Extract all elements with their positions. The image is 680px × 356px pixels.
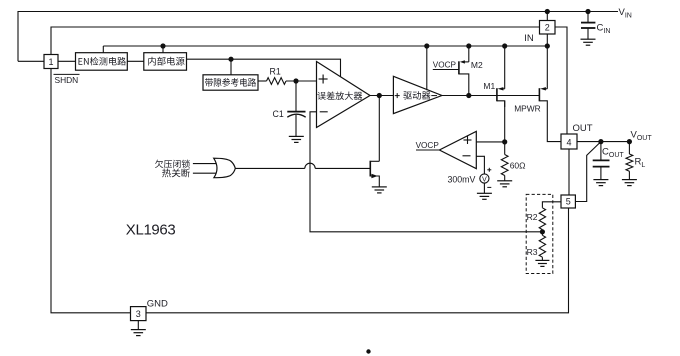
ground RL — [622, 180, 637, 186]
op-amp OCP comparator — [439, 131, 476, 168]
wire pin5 to divider — [542, 202, 561, 208]
wire or-gate output with hop — [235, 163, 369, 168]
wire OCP output — [416, 149, 439, 151]
label R1 — [270, 66, 281, 76]
label error amplifier — [317, 92, 362, 100]
junction driver supply — [424, 43, 429, 48]
op-amp driver — [393, 76, 442, 113]
junction OUT to RL — [627, 139, 632, 144]
junction OCP plus input — [502, 139, 507, 144]
svg-text:R1: R1 — [270, 66, 281, 76]
wire VIN rail — [18, 12, 618, 62]
svg-text:MPWR: MPWR — [514, 104, 541, 114]
svg-text:C1: C1 — [273, 109, 284, 119]
transistor Q1 pulldown — [370, 161, 379, 187]
wire OUT sense to pin5 — [575, 142, 601, 202]
page dot — [366, 349, 370, 353]
resistor RL — [626, 142, 633, 180]
svg-text:2: 2 — [545, 22, 550, 32]
wire pin4 to pin5 — [568, 149, 570, 195]
label EN detect circuit — [79, 57, 126, 66]
wire R2 to R3 — [541, 230, 543, 236]
label VOUT — [631, 130, 653, 143]
block EN detect circuit — [76, 53, 128, 70]
IC boundary left-bottom-right — [51, 69, 569, 313]
resistor 60ohm — [501, 155, 508, 176]
resistor R1 — [267, 78, 287, 85]
label VIN — [619, 7, 632, 20]
svg-text:4: 4 — [566, 137, 571, 147]
dashed box divider — [526, 194, 553, 273]
wire EN block top stub — [102, 46, 104, 53]
wire error amp minus feedback — [310, 112, 542, 232]
wire driver output gate line — [442, 95, 540, 97]
label RL — [635, 157, 646, 170]
ground Q1 — [372, 187, 387, 193]
ground COUT — [593, 180, 608, 186]
label C1 — [273, 109, 284, 119]
svg-text:V: V — [482, 175, 487, 184]
label XL1963 — [126, 221, 176, 238]
wire driver supply — [426, 46, 428, 90]
wire error amp output to Q1 drain — [378, 96, 380, 162]
ground C1 — [289, 136, 304, 142]
capacitor CIN — [581, 12, 595, 40]
svg-text:VOCP: VOCP — [433, 61, 457, 70]
wire R3 to ground — [541, 257, 543, 260]
svg-text:1: 1 — [48, 57, 53, 67]
source 300mV — [480, 168, 492, 194]
wire R1 to error amp — [286, 80, 317, 82]
svg-text:R2: R2 — [527, 212, 538, 222]
capacitor COUT — [593, 142, 610, 180]
junction VIN to CIN — [585, 9, 590, 14]
resistor R2 — [539, 208, 545, 230]
pin 3 GND — [131, 307, 147, 321]
svg-text:M2: M2 — [471, 60, 483, 70]
svg-text:GND: GND — [147, 298, 168, 309]
label IN — [524, 33, 534, 44]
wire OCP minus input — [476, 156, 484, 174]
junction M1 drain — [502, 43, 507, 48]
capacitor C1 — [287, 81, 305, 136]
junction VIN to pin2 — [545, 9, 550, 14]
junction M2 drain — [466, 43, 471, 48]
label R2 — [527, 212, 538, 222]
junction supply to bandgap — [228, 57, 233, 62]
ground 60ohm — [497, 181, 512, 187]
wire internal IN rail — [103, 45, 547, 47]
wire bandgap to R1 — [258, 80, 267, 82]
svg-text:3: 3 — [136, 309, 141, 319]
label driver — [403, 91, 430, 99]
svg-text:300mV: 300mV — [448, 174, 476, 184]
svg-text:R3: R3 — [527, 247, 538, 257]
svg-text:SHDN: SHDN — [55, 75, 79, 85]
pin 4 OUT — [561, 134, 577, 149]
svg-text:XL1963: XL1963 — [126, 221, 176, 238]
block bandgap reference — [203, 75, 258, 90]
wire UVLO input — [193, 163, 217, 165]
svg-text:M1: M1 — [483, 81, 495, 91]
pin 2 IN — [540, 21, 556, 35]
ground R3 — [535, 260, 549, 266]
label GND — [147, 298, 168, 309]
ground 300mV — [477, 193, 492, 199]
pin 1 — [44, 55, 58, 69]
junction rail to internal power — [160, 43, 165, 48]
transistor MPWR — [539, 46, 561, 142]
wire error amp output — [370, 95, 394, 97]
label COUT — [602, 147, 624, 160]
junction M2 source on gate line — [466, 93, 471, 98]
ground CIN — [581, 39, 596, 45]
transistor M2 — [459, 46, 469, 96]
ground pin3 — [131, 330, 146, 336]
junction IN rail to pin2 — [545, 43, 550, 48]
label internal power — [148, 57, 184, 66]
wire VIN to pin 1 — [18, 60, 44, 62]
op-amp error amplifier — [317, 62, 371, 128]
label M2 — [471, 60, 483, 70]
label 300mV — [448, 174, 476, 184]
label M1 — [483, 81, 495, 91]
label 60ohm — [510, 160, 526, 170]
svg-text:VOCP: VOCP — [416, 141, 440, 150]
wire 60ohm to ground — [504, 176, 506, 181]
label VOCP net — [416, 141, 440, 150]
label CIN — [597, 23, 611, 36]
svg-text:IN: IN — [524, 33, 534, 44]
wire EN to internal power — [127, 60, 144, 62]
wire internal power to error amp — [187, 59, 341, 77]
wire pin3 to ground — [137, 321, 139, 330]
wire OUT line — [577, 141, 629, 143]
transistor M1 — [497, 46, 505, 107]
wire bandgap top stub — [230, 59, 232, 75]
junction feedback — [540, 229, 545, 234]
svg-text:60Ω: 60Ω — [510, 160, 526, 170]
or-gate shutdown logic — [214, 158, 236, 178]
label UVLO — [155, 160, 190, 168]
label VOCP at M2 gate — [433, 61, 459, 70]
junction error amp output — [377, 93, 382, 98]
pin 5 — [561, 195, 575, 208]
label MPWR — [514, 104, 541, 114]
junction OUT to COUT — [598, 139, 603, 144]
label OUT — [573, 123, 593, 134]
svg-text:OUT: OUT — [573, 123, 593, 134]
wire pin2 to pin4 — [555, 27, 567, 134]
label SHDN — [54, 74, 80, 85]
resistor R3 — [539, 235, 545, 257]
wire thermal input — [193, 172, 217, 174]
label R3 — [527, 247, 538, 257]
wire internal power top stub — [162, 46, 164, 53]
wire pin2 top stub — [546, 12, 548, 21]
wire pin2 bottom stub — [546, 34, 548, 46]
wire pin1 to EN block — [58, 60, 76, 62]
label thermal shutdown — [162, 168, 190, 177]
block internal power — [144, 53, 187, 70]
label bandgap reference — [205, 78, 256, 87]
svg-text:5: 5 — [566, 196, 571, 206]
junction R1 C1 — [293, 78, 298, 83]
wire M1 source to 60ohm — [504, 101, 506, 155]
wire SHDN top edge — [51, 27, 540, 55]
wire OCP plus input — [476, 141, 504, 143]
